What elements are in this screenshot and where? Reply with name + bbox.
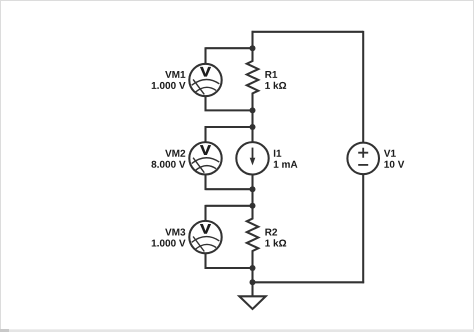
wire: VM3 top horizontal + stub: [206, 205, 253, 221]
node: junction bus / R2 top / VM3 top: [250, 203, 256, 209]
value VM1 1.000 V: [152, 82, 186, 89]
wire: bus between I1 bottom and R2 top: [251, 189, 253, 206]
value I1 1 mA: [274, 161, 298, 168]
voltage source V1: [347, 143, 379, 175]
node: junction bus / I1 bottom / VM2 bottom: [250, 186, 256, 192]
wire: right column lower vertical from V1 to bottom rail: [362, 174, 364, 283]
value VM3 1.000 V: [152, 240, 186, 247]
node: junction bus / R1 bottom / VM1 bottom: [250, 107, 256, 113]
resistor R1: [247, 48, 258, 110]
voltmeter VM2 V letter: [200, 145, 210, 154]
label R1: [265, 71, 277, 78]
value R1 1 kOhm: [265, 82, 286, 89]
wire: VM1 top horizontal + stub: [206, 47, 253, 64]
resistor R2: [247, 206, 258, 268]
value V1 10 V: [384, 161, 404, 168]
voltmeter VM2: [189, 142, 221, 174]
node: junction bus / bottom rail / ground: [250, 279, 256, 285]
voltmeter VM1 V letter: [200, 67, 210, 76]
wire: VM1 bottom stub + horizontal: [206, 96, 253, 111]
label R2: [265, 229, 277, 236]
wire: top rail horizontal from bus to V1 column: [252, 31, 364, 33]
label VM1: [165, 71, 185, 78]
label VM3: [165, 229, 185, 236]
node: junction bus / R2 bottom / VM3 bottom: [250, 265, 256, 271]
voltmeter VM1: [189, 64, 221, 96]
value VM2 8.000 V: [151, 161, 185, 168]
wire: VM2 bottom stub + horizontal: [206, 175, 253, 191]
value R2 1 kOhm: [265, 239, 286, 246]
wire: bus top vertical segment: [251, 31, 253, 48]
label VM2: [165, 150, 185, 157]
wire: VM3 bottom stub + horizontal: [206, 253, 253, 269]
label V1: [384, 150, 396, 157]
voltmeter VM3 V letter: [200, 224, 210, 233]
wire: bus between R1 bottom and I1 top: [251, 110, 253, 127]
node: junction bus / R1 top / VM1 top: [250, 45, 256, 51]
label I1: [274, 150, 281, 157]
node: junction bus / I1 top / VM2 top: [250, 124, 256, 130]
wire: bus between R2 bottom and bottom rail: [251, 268, 253, 282]
voltmeter VM3: [189, 221, 221, 253]
current source I1: [236, 127, 268, 189]
ground: [239, 296, 265, 309]
wire: VM2 top horizontal + stub: [206, 126, 253, 142]
wire: ground stub: [251, 282, 253, 296]
wire: right column upper vertical down to V1: [362, 31, 364, 143]
wire: bottom rail horizontal from bus to V1 column: [253, 281, 365, 283]
